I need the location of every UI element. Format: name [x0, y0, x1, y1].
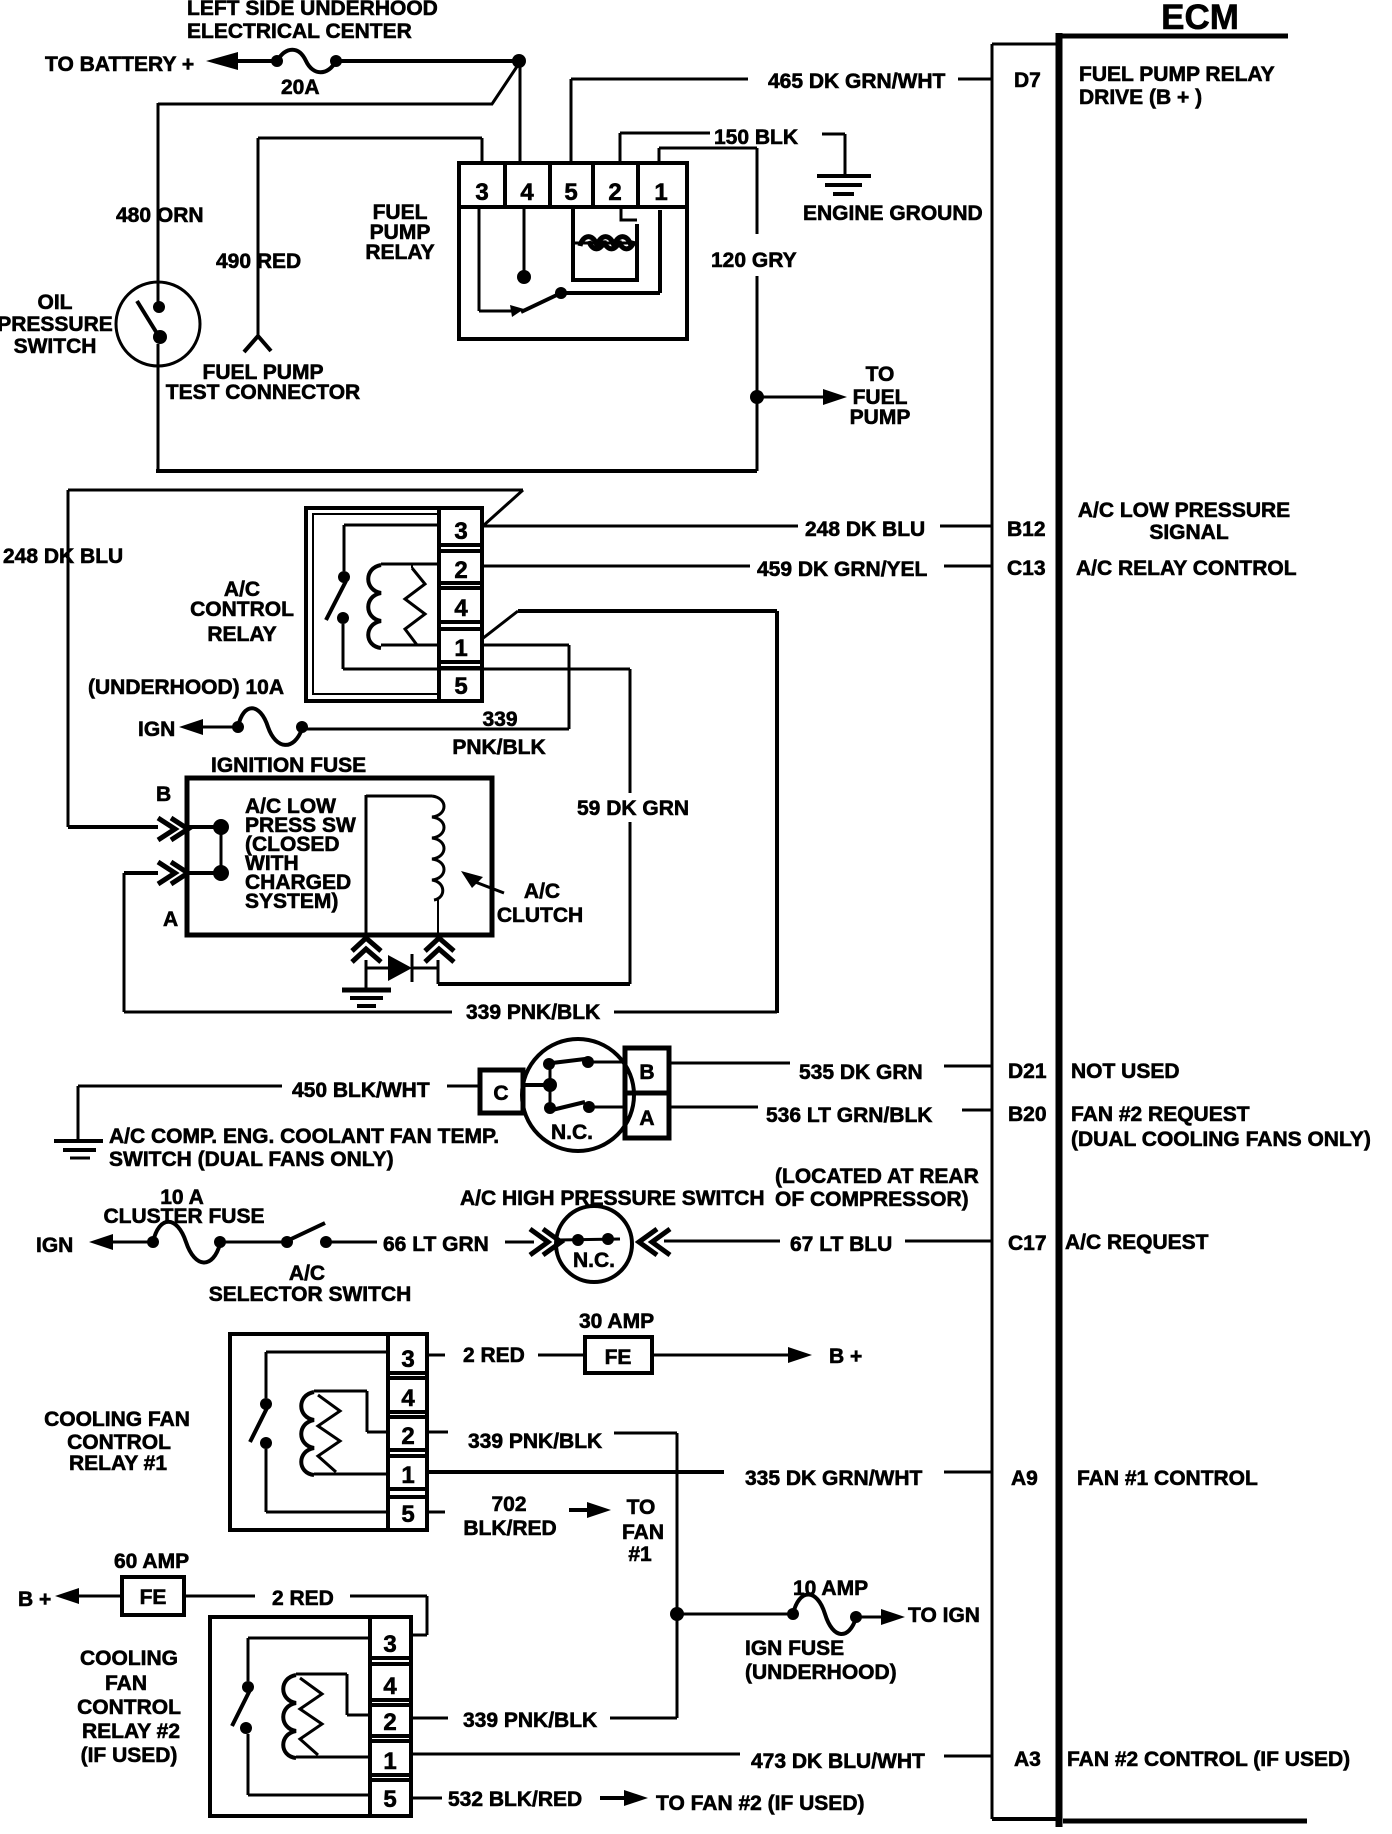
label N.C. temp switch — [551, 1121, 593, 1144]
wire 248 stub to ECM — [940, 525, 992, 528]
label FUEL PUMP RELAY DRIVE (B+) — [1079, 63, 1275, 109]
svg-text:A/C HIGH PRESSURE SWITCH: A/C HIGH PRESSURE SWITCH — [460, 1187, 765, 1210]
high pressure switch contacts — [558, 1233, 620, 1246]
label 490 RED — [216, 250, 301, 273]
wire IGN arrow — [179, 719, 238, 735]
wire to battery with arrow — [206, 52, 278, 70]
pin 4 label — [520, 179, 534, 206]
wire 702 BLK/RED relay1 pin5 — [427, 1511, 445, 1514]
svg-text:30 AMP: 30 AMP — [579, 1310, 654, 1333]
wire B terminal — [68, 825, 158, 829]
A/C relay pin 2 label — [454, 557, 467, 584]
temp switch terminal A box — [625, 1093, 669, 1138]
svg-text:1: 1 — [654, 179, 667, 206]
label A/C LOW PRESS SW (CLOSED WITH CHARGED SYSTEM) — [245, 795, 356, 913]
svg-text:2 RED: 2 RED — [272, 1587, 334, 1610]
svg-text:(LOCATED AT REAR: (LOCATED AT REAR — [775, 1165, 979, 1188]
wire A/C relay pin1 to ignition fuse — [482, 645, 569, 729]
A/C low press switch box — [187, 778, 492, 935]
relay internal pin4 line — [517, 207, 531, 284]
svg-text:1: 1 — [401, 1462, 414, 1489]
terminal A chevrons — [158, 862, 188, 884]
fan relay 1 pin3 wire — [266, 1351, 388, 1354]
fan relay 1 common to pin5 — [266, 1449, 388, 1512]
label 248 DK BLU left — [3, 545, 123, 568]
node ignition rail junction — [670, 1607, 684, 1621]
wire 150 BLK from pin2 — [620, 133, 710, 163]
svg-text:COOLING: COOLING — [80, 1647, 178, 1670]
wire A terminal loop 339 PNK/BLK — [124, 873, 452, 1012]
fuse FE 60A — [122, 1577, 184, 1615]
wire 2 RED to fuse — [538, 1354, 585, 1357]
wire junction diagonal to 480 ORN bus — [158, 65, 518, 104]
label FAN #2 REQUEST — [1071, 1103, 1371, 1151]
svg-text:3: 3 — [401, 1346, 414, 1373]
svg-text:1: 1 — [454, 635, 467, 662]
svg-text:D7: D7 — [1014, 69, 1041, 92]
fuel pump relay coil — [574, 237, 637, 249]
fan relay 2 switch — [232, 1638, 254, 1734]
svg-text:FE: FE — [605, 1346, 632, 1369]
svg-text:FAN #2 REQUEST: FAN #2 REQUEST — [1071, 1103, 1250, 1126]
label 2 RED fan2 — [272, 1587, 334, 1610]
label 335 DK GRN/WHT — [745, 1467, 923, 1490]
fuel pump relay pin row bottom — [459, 205, 687, 209]
wire to fuel pump arrow — [757, 389, 847, 405]
fan relay 2 pin3 wire — [248, 1637, 370, 1640]
label A/C COMP ENG COOLANT FAN TEMP SWITCH — [109, 1125, 499, 1171]
svg-text:450 BLK/WHT: 450 BLK/WHT — [292, 1079, 430, 1102]
A/C relay pin column divider — [437, 508, 441, 701]
svg-text:B20: B20 — [1008, 1103, 1047, 1126]
svg-text:TO FAN #2 (IF USED): TO FAN #2 (IF USED) — [656, 1792, 864, 1815]
svg-text:5: 5 — [454, 673, 467, 700]
label 702 BLK/RED — [463, 1493, 556, 1540]
svg-text:OIL: OIL — [38, 291, 73, 314]
label A/C SELECTOR SWITCH — [209, 1262, 412, 1306]
label LOCATED AT REAR OF COMPRESSOR — [775, 1165, 979, 1211]
temp switch terminal B box — [625, 1048, 669, 1093]
wire IGN arrow lower — [89, 1234, 153, 1250]
terminal A label — [163, 908, 178, 931]
label IGNITION FUSE — [211, 754, 366, 777]
A/C relay pin 5 label — [454, 673, 467, 700]
wire oil switch down to bottom bus — [157, 366, 160, 471]
label ENGINE GROUND — [803, 202, 983, 225]
oil pressure switch — [116, 282, 200, 366]
fan relay 2 coil left winding — [283, 1675, 296, 1758]
label (UNDERHOOD) 10A — [88, 676, 284, 699]
label 59 DK GRN — [577, 797, 689, 820]
ECM pin A9 — [1011, 1467, 1038, 1490]
ECM pin B12 — [1007, 518, 1046, 541]
label IGN FUSE (UNDERHOOD) — [745, 1637, 897, 1684]
svg-text:TO: TO — [866, 363, 895, 386]
svg-text:4: 4 — [454, 595, 468, 622]
wire 465 stub to ECM — [958, 78, 992, 81]
wire FE to 2 RED — [184, 1595, 255, 1598]
svg-text:PNK/BLK: PNK/BLK — [452, 736, 545, 759]
ECM pin C13 — [1007, 557, 1046, 580]
label B+ fan1 — [829, 1345, 862, 1368]
ECM pin B20 — [1008, 1103, 1047, 1126]
wire 450 BLK/WHT left — [78, 1085, 282, 1088]
svg-text:CONTROL: CONTROL — [77, 1696, 181, 1719]
label 339 PNK/BLK upper — [452, 708, 545, 759]
label FUEL PUMP RELAY — [365, 201, 434, 264]
wire 248 DK BLU to ECM — [484, 525, 798, 528]
svg-text:490 RED: 490 RED — [216, 250, 301, 273]
A/C relay internal pin3 to contact — [338, 525, 439, 583]
label 20A — [281, 76, 320, 99]
label ECM — [1057, 0, 1288, 37]
svg-text:A/C LOW PRESSURE: A/C LOW PRESSURE — [1078, 499, 1290, 522]
wire 339 PNK/BLK relay2 pin2 — [409, 1717, 448, 1720]
wire 465 DK GRN/WHT — [571, 79, 748, 163]
relay coil cup — [573, 207, 637, 280]
wire clutch return — [438, 960, 630, 984]
wire 473 stub to ECM — [944, 1755, 992, 1758]
A/C clutch arrow — [461, 871, 504, 893]
svg-text:SELECTOR SWITCH: SELECTOR SWITCH — [209, 1283, 412, 1306]
label COOLING FAN CONTROL RELAY #1 — [44, 1408, 190, 1475]
svg-text:339: 339 — [482, 708, 517, 731]
svg-text:5: 5 — [564, 179, 577, 206]
svg-text:67 LT BLU: 67 LT BLU — [790, 1233, 892, 1256]
pin 1 label — [654, 179, 667, 206]
A/C relay coil left winding — [368, 565, 381, 648]
svg-text:D21: D21 — [1008, 1060, 1047, 1083]
ign fuse 10 AMP — [787, 1595, 862, 1635]
svg-text:535 DK GRN: 535 DK GRN — [799, 1061, 923, 1084]
wire B+ arrow fan2 — [55, 1588, 122, 1604]
relay contact blob — [510, 305, 524, 317]
svg-text:A/C: A/C — [524, 880, 560, 903]
fan relay 1 coil top to pin2 — [314, 1391, 388, 1432]
svg-text:20A: 20A — [281, 76, 320, 99]
A/C high pressure switch circle — [556, 1206, 632, 1282]
relay switch lever K1 — [521, 287, 567, 312]
svg-text:339 PNK/BLK: 339 PNK/BLK — [463, 1709, 597, 1732]
label N.C. high pressure — [573, 1249, 615, 1272]
svg-text:B +: B + — [18, 1588, 51, 1611]
fan relay 2 pin divider — [368, 1617, 372, 1816]
label LEFT SIDE UNDERHOOD ELECTRICAL CENTER — [187, 0, 438, 43]
label 150 BLK — [714, 126, 798, 149]
fan relay 1 pin 2 label — [401, 1423, 414, 1450]
svg-text:2: 2 — [608, 179, 621, 206]
wire pin1 to 339 PNK/BLK corner — [482, 611, 777, 1013]
node fuel pump junction — [750, 390, 764, 404]
svg-text:ELECTRICAL CENTER: ELECTRICAL CENTER — [187, 20, 412, 43]
svg-text:CLUTCH: CLUTCH — [497, 904, 583, 927]
label 535 DK GRN — [799, 1061, 923, 1084]
fuse underhood 10A — [232, 708, 308, 745]
label A/C CONTROL RELAY — [190, 578, 294, 646]
A/C selector switch — [281, 1223, 332, 1248]
svg-text:A3: A3 — [1014, 1748, 1041, 1771]
svg-text:FUEL PUMP RELAY: FUEL PUMP RELAY — [1079, 63, 1275, 86]
label FAN #2 CONTROL (IF USED) — [1067, 1748, 1350, 1771]
svg-text:IGN: IGN — [138, 718, 175, 741]
relay internal common to pin1 — [561, 210, 660, 293]
ECM pin D21 — [1008, 1060, 1047, 1083]
svg-text:TO: TO — [627, 1496, 656, 1519]
svg-text:FAN #2 CONTROL (IF USED): FAN #2 CONTROL (IF USED) — [1067, 1748, 1350, 1771]
label TO FAN #2 (IF USED) — [656, 1792, 864, 1815]
temp switch internals — [523, 1056, 625, 1114]
label 60 AMP — [114, 1550, 189, 1573]
svg-text:B12: B12 — [1007, 518, 1046, 541]
clutch ground symbol — [342, 990, 391, 1006]
wire junction to ign fuse — [677, 1613, 793, 1616]
svg-text:COOLING FAN: COOLING FAN — [44, 1408, 190, 1431]
label 339 PNK/BLK lower — [466, 1001, 600, 1024]
A/C relay pin 4 label — [454, 595, 468, 622]
wire 248 DK BLU left loop — [68, 490, 523, 827]
svg-text:NOT USED: NOT USED — [1071, 1060, 1180, 1083]
svg-text:B +: B + — [829, 1345, 862, 1368]
wire 335 DK GRN/WHT — [427, 1470, 724, 1474]
relay internal pin3 line — [479, 207, 516, 311]
svg-text:IGN: IGN — [36, 1234, 73, 1257]
label FAN #1 CONTROL — [1077, 1467, 1258, 1490]
label 450 BLK/WHT — [292, 1079, 430, 1102]
label 2 RED — [463, 1344, 525, 1367]
pin 5 label — [564, 179, 577, 206]
fan relay 2 outline — [210, 1617, 411, 1816]
svg-text:A9: A9 — [1011, 1467, 1038, 1490]
ECM connector column — [992, 33, 1059, 1827]
terminal B chevrons — [158, 818, 188, 840]
A/C relay pin 3 label — [454, 518, 467, 545]
relay coil feed from pin2 — [621, 207, 637, 220]
svg-text:702: 702 — [491, 1493, 526, 1516]
svg-text:ECM: ECM — [1161, 0, 1239, 37]
fan relay 1 coil bottom to pin1 — [314, 1473, 388, 1476]
svg-text:LEFT SIDE UNDERHOOD: LEFT SIDE UNDERHOOD — [187, 0, 438, 20]
label A/C HIGH PRESSURE SWITCH — [460, 1187, 765, 1210]
A/C relay coil right zigzag — [405, 568, 425, 645]
arrow 532 to fan 2 — [600, 1790, 648, 1806]
svg-text:473 DK BLU/WHT: 473 DK BLU/WHT — [751, 1750, 925, 1773]
svg-text:248 DK BLU: 248 DK BLU — [805, 518, 925, 541]
svg-text:#1: #1 — [628, 1543, 652, 1566]
svg-text:CLUSTER FUSE: CLUSTER FUSE — [103, 1205, 264, 1228]
svg-text:59 DK GRN: 59 DK GRN — [577, 797, 689, 820]
wire 459 DK GRN/YEL — [482, 565, 750, 568]
label COOLING FAN CONTROL RELAY #2 (IF USED) — [77, 1647, 181, 1767]
svg-text:BLK/RED: BLK/RED — [463, 1517, 556, 1540]
ECM pin C17 — [1008, 1232, 1047, 1255]
svg-text:FE: FE — [140, 1586, 167, 1609]
ECM box bottom line — [1063, 1819, 1307, 1824]
fuel pump test connector fork — [244, 336, 271, 352]
label OIL PRESSURE SWITCH — [0, 291, 113, 358]
label 459 DK GRN/YEL — [757, 558, 928, 581]
wire FE to B+ arrow — [652, 1347, 812, 1363]
wire 339 to junction rail — [614, 1433, 677, 1608]
label TO FAN #1 — [622, 1496, 664, 1566]
fuel pump relay outline — [459, 163, 687, 339]
wire 535 DK GRN — [669, 1062, 790, 1065]
svg-text:459 DK GRN/YEL: 459 DK GRN/YEL — [757, 558, 928, 581]
svg-text:532 BLK/RED: 532 BLK/RED — [448, 1788, 582, 1811]
svg-text:FAN #1 CONTROL: FAN #1 CONTROL — [1077, 1467, 1258, 1490]
fan relay 2 coil right zigzag — [300, 1678, 322, 1755]
label IGN lower — [36, 1234, 73, 1257]
A/C relay common to pin5 path — [343, 624, 439, 669]
temp switch circle — [522, 1039, 634, 1151]
fan relay 2 pin 1 label — [383, 1748, 396, 1775]
svg-text:RELAY #2: RELAY #2 — [82, 1720, 180, 1743]
fan relay 1 coil right zigzag — [318, 1395, 340, 1472]
svg-text:5: 5 — [383, 1786, 396, 1813]
label 339 PNK/BLK fan1 — [468, 1430, 602, 1453]
svg-text:A/C REQUEST: A/C REQUEST — [1065, 1231, 1209, 1254]
svg-text:PRESSURE: PRESSURE — [0, 313, 113, 336]
label TO BATTERY + — [45, 53, 194, 76]
A/C relay pin 1 label — [454, 635, 467, 662]
clutch side chevrons — [425, 938, 454, 962]
high pressure switch right chevrons — [639, 1229, 670, 1255]
label 532 BLK/RED — [448, 1788, 582, 1811]
label 465 DK GRN/WHT — [768, 70, 946, 93]
svg-text:3: 3 — [383, 1631, 396, 1658]
svg-text:A/C: A/C — [289, 1262, 325, 1285]
label IGN upper — [138, 718, 175, 741]
svg-text:IGNITION FUSE: IGNITION FUSE — [211, 754, 366, 777]
svg-text:CONTROL: CONTROL — [190, 598, 294, 621]
svg-text:RELAY: RELAY — [365, 241, 434, 264]
svg-text:SYSTEM): SYSTEM) — [245, 890, 338, 913]
fan relay 1 pin 3 label — [401, 1346, 414, 1373]
fan relay 1 pin 5 label — [401, 1501, 414, 1528]
label TO FUEL PUMP — [850, 363, 911, 429]
fan relay 2 pin 4 label — [383, 1673, 397, 1700]
svg-text:FAN: FAN — [105, 1672, 147, 1695]
wire fuse to A/C relay — [302, 728, 569, 731]
wire 532 BLK/RED relay2 pin5 — [409, 1797, 442, 1800]
fan relay 2 pin 5 label — [383, 1786, 396, 1813]
svg-text:66 LT GRN: 66 LT GRN — [383, 1233, 489, 1256]
label FUEL PUMP TEST CONNECTOR — [166, 361, 360, 404]
label 536 LT GRN/BLK — [766, 1104, 932, 1127]
wire 535 stub to ECM — [944, 1065, 992, 1068]
A/C control relay outline — [306, 508, 482, 701]
label A/C LOW PRESSURE SIGNAL — [1078, 499, 1290, 544]
svg-text:335 DK GRN/WHT: 335 DK GRN/WHT — [745, 1467, 923, 1490]
svg-text:(UNDERHOOD): (UNDERHOOD) — [745, 1661, 897, 1684]
svg-text:2: 2 — [454, 557, 467, 584]
A/C relay coil bottom to pin1 — [381, 644, 439, 647]
fan relay 1 pin divider — [386, 1334, 390, 1530]
svg-text:5: 5 — [401, 1501, 414, 1528]
svg-text:ENGINE GROUND: ENGINE GROUND — [803, 202, 983, 225]
fuse F1 20A — [271, 50, 342, 73]
wire 66 LT GRN to high pressure switch — [505, 1241, 534, 1244]
label B+ fan2 — [18, 1588, 51, 1611]
label A/C CLUTCH — [497, 880, 583, 927]
high pressure switch left chevrons — [530, 1229, 561, 1255]
fan relay 1 outline — [230, 1334, 427, 1530]
svg-text:536 LT GRN/BLK: 536 LT GRN/BLK — [766, 1104, 932, 1127]
fan relay 1 coil left winding — [301, 1392, 314, 1475]
svg-text:3: 3 — [475, 179, 488, 206]
arrow 702 to fan — [569, 1502, 611, 1518]
svg-text:480 ORN: 480 ORN — [116, 204, 204, 227]
fan relay 2 pin 3 label — [383, 1631, 396, 1658]
wire bottom bus to fuel pump line — [156, 469, 757, 473]
label 120 GRY — [711, 249, 797, 272]
svg-text:RELAY #1: RELAY #1 — [69, 1452, 167, 1475]
svg-text:A: A — [163, 908, 178, 931]
svg-text:B: B — [156, 783, 171, 806]
wire 120 GRY to bottom bus — [756, 397, 759, 471]
wire 339 PNK/BLK relay1 pin2 — [427, 1431, 448, 1434]
svg-text:120 GRY: 120 GRY — [711, 249, 797, 272]
label 67 LT BLU — [790, 1233, 892, 1256]
terminal B label — [156, 783, 171, 806]
svg-text:SWITCH (DUAL FANS ONLY): SWITCH (DUAL FANS ONLY) — [109, 1148, 394, 1171]
wire 480 ORN down to oil pressure switch — [157, 103, 160, 283]
label 339 PNK/BLK fan2 — [463, 1709, 597, 1732]
svg-text:248 DK BLU: 248 DK BLU — [3, 545, 123, 568]
svg-text:4: 4 — [520, 179, 534, 206]
wire A/C low press switch contacts — [188, 819, 229, 881]
wire fuse to junction — [336, 59, 519, 63]
fuel pump relay pin dividers — [505, 163, 638, 207]
wire 339 fan2 to junction rail — [610, 1614, 677, 1718]
svg-text:CONTROL: CONTROL — [67, 1431, 171, 1454]
svg-text:TO IGN: TO IGN — [908, 1604, 980, 1627]
svg-text:N.C.: N.C. — [573, 1249, 615, 1272]
svg-text:N.C.: N.C. — [551, 1121, 593, 1144]
temp switch terminal C box — [480, 1070, 523, 1113]
svg-text:4: 4 — [383, 1673, 397, 1700]
ECM pin D7 — [1014, 69, 1041, 92]
wire 473 DK BLU/WHT — [409, 1753, 740, 1756]
wire 335 stub to ECM — [944, 1471, 992, 1474]
wire 339 PNK/BLK right segment — [614, 1011, 777, 1014]
svg-text:339 PNK/BLK: 339 PNK/BLK — [468, 1430, 602, 1453]
wire selector to 66 LT GRN — [326, 1241, 377, 1244]
svg-text:3: 3 — [454, 518, 467, 545]
svg-text:TO BATTERY +: TO BATTERY + — [45, 53, 194, 76]
label 248 DK BLU — [805, 518, 925, 541]
fan relay 2 common to pin5 — [248, 1734, 370, 1795]
svg-text:C17: C17 — [1008, 1232, 1047, 1255]
fan relay 2 pin boxes — [370, 1658, 409, 1780]
wire 120 GRY from pin1 — [659, 148, 757, 396]
svg-text:FAN: FAN — [622, 1521, 664, 1544]
fan relay 1 pin 4 label — [401, 1385, 415, 1412]
label TO IGN — [908, 1604, 980, 1627]
svg-text:465 DK GRN/WHT: 465 DK GRN/WHT — [768, 70, 946, 93]
pin 3 label — [475, 179, 488, 206]
engine ground symbol — [817, 134, 871, 194]
label A/C REQUEST — [1065, 1231, 1209, 1254]
A/C relay inner border — [313, 514, 439, 694]
svg-text:60 AMP: 60 AMP — [114, 1550, 189, 1573]
A/C relay pin boxes — [439, 545, 482, 668]
svg-text:SIGNAL: SIGNAL — [1149, 521, 1229, 544]
ground for temp switch — [54, 1086, 103, 1158]
A/C relay coil top to pin2 — [381, 564, 439, 568]
wire 67 stub to ECM — [905, 1240, 992, 1243]
fan relay 2 coil top to pin2 — [296, 1674, 370, 1715]
clutch ground chevrons — [352, 938, 381, 962]
